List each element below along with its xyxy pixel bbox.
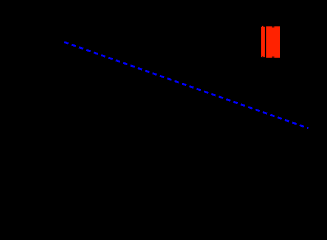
- blue dashed trend line: [64, 42, 308, 128]
- red candlestick: wide box top notch: [272, 26, 274, 27]
- red candlestick: wide main box: [266, 26, 280, 58]
- red candlestick: narrow box bottom notch: [262, 55, 263, 58]
- red candlestick: wide box bottom notch: [272, 57, 274, 58]
- red candlestick: narrow left box: [261, 27, 265, 57]
- red candlestick: narrow box whisker tip (top): [262, 26, 263, 27]
